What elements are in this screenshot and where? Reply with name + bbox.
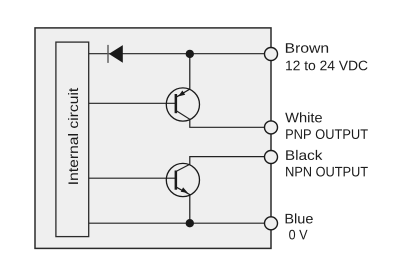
wire NPN emitter to 0V rail — [176, 187, 190, 223]
node junction top — [186, 50, 194, 58]
wire NPN collector to Black — [176, 157, 271, 172]
transistor Q1 emitter arrow (PNP, points to base) — [178, 91, 185, 97]
transistor Q2 emitter arrow (NPN, points out) — [181, 187, 188, 193]
wire PNP collector to White — [176, 111, 271, 128]
node junction bottom — [186, 219, 194, 227]
wire top rail (+V) — [89, 53, 271, 55]
internal circuit box — [56, 42, 89, 237]
label 0 V — [289, 230, 307, 240]
diode D1 cathode bar — [107, 45, 108, 63]
label Black — [286, 150, 322, 160]
label White — [285, 112, 322, 122]
terminal White — [265, 121, 278, 134]
label Blue — [286, 213, 313, 223]
terminal Black — [265, 151, 278, 164]
transistor Q1 base bar — [175, 94, 178, 113]
label Brown — [286, 43, 328, 53]
transistor Q2 NPN circle — [166, 163, 199, 196]
outer sensor box — [35, 28, 271, 249]
wire bottom rail (0V) — [89, 222, 271, 224]
wire PNP emitter to top rail — [176, 54, 190, 97]
transistor Q1 PNP circle — [166, 88, 199, 121]
diode D1 triangle — [109, 45, 123, 63]
terminal Brown — [265, 48, 278, 61]
terminal Blue — [265, 217, 278, 230]
wire NPN base — [89, 177, 176, 179]
label 12 to 24 VDC — [286, 61, 367, 71]
label Internal circuit — [68, 88, 78, 184]
label PNP OUTPUT — [286, 129, 368, 139]
wire PNP base — [89, 102, 176, 104]
label NPN OUTPUT — [286, 167, 368, 177]
transistor Q2 base bar — [175, 171, 178, 190]
